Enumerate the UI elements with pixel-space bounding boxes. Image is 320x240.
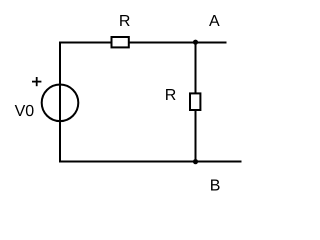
resistor R2 body (shunt, vertical) bbox=[190, 93, 200, 110]
voltage source V0 circle bbox=[42, 85, 79, 122]
plus polarity mark of V0 bbox=[32, 77, 41, 86]
wire top rail from source to node A bbox=[60, 42, 227, 44]
junction dot node B bbox=[193, 159, 198, 164]
svg-text:A: A bbox=[209, 13, 220, 30]
svg-text:R: R bbox=[119, 13, 131, 30]
wire right branch through resistor R bbox=[195, 43, 197, 162]
svg-text:R: R bbox=[165, 87, 177, 104]
resistor R1 body (series, horizontal) bbox=[112, 37, 129, 47]
svg-text:V0: V0 bbox=[15, 103, 35, 120]
wire left rail through source V0 bbox=[59, 42, 61, 163]
svg-text:B: B bbox=[210, 178, 221, 195]
junction dot node A bbox=[193, 40, 198, 45]
wire bottom rail to node B bbox=[60, 161, 242, 163]
